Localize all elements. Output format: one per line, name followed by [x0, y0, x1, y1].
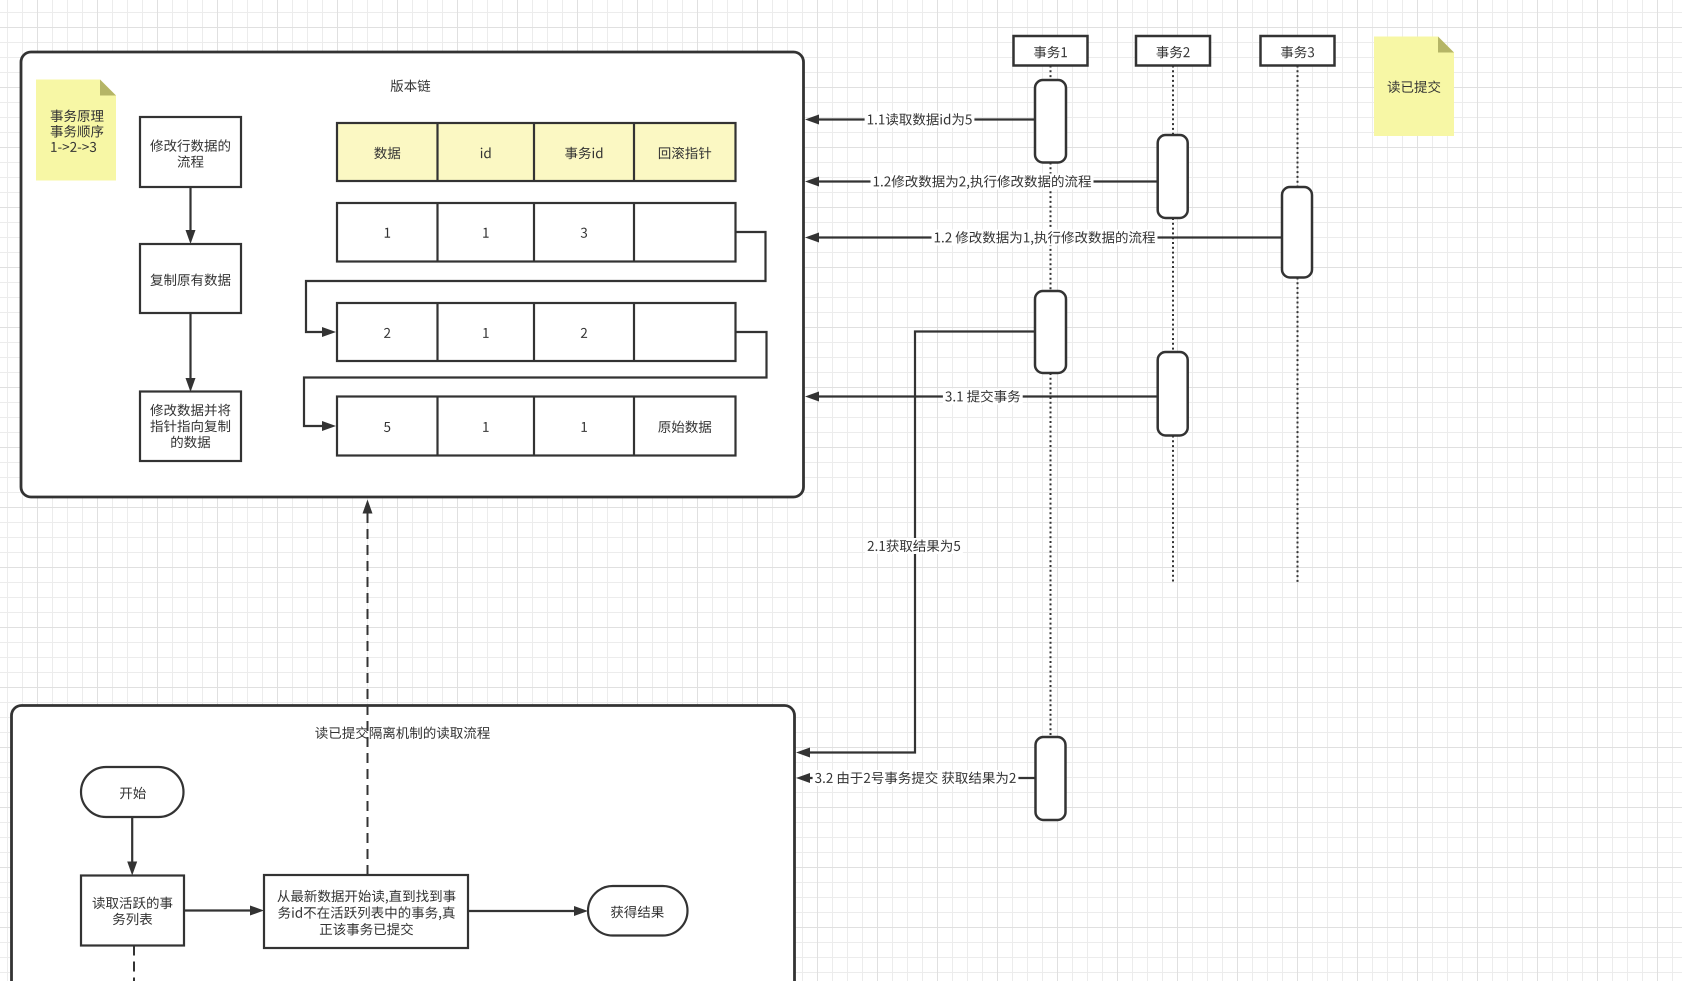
lifeline3 dotted line — [1297, 66, 1299, 188]
container 读取流程 box — [12, 706, 795, 981]
sticky note 事务原理 — [36, 80, 116, 181]
activation bar A5 事务2 — [1158, 352, 1188, 436]
activation bar A6 事务1 — [1036, 737, 1066, 820]
message 3.2获取结果为2 — [808, 777, 1036, 779]
arrow 读取活跃 to 从最新数据 — [184, 909, 252, 911]
activation bar A1 事务1 — [1035, 80, 1066, 163]
dashed connector to 版本链 — [367, 511, 369, 875]
arrow flow2 — [189, 313, 191, 380]
title 读已提交隔离机制的读取流程 — [315, 726, 489, 739]
message 1.2修改数据为2 — [817, 180, 1158, 182]
message 1.1读取数据id为5 — [817, 118, 1035, 120]
process box 修改行数据的流程 — [140, 117, 241, 187]
sticky note 读已提交 — [1374, 37, 1454, 137]
start terminator 开始 — [81, 767, 184, 817]
table header row 数据/id/事务id/回滚指针 — [337, 123, 736, 181]
connector row1 to row2 — [306, 232, 766, 332]
lifeline1 dotted line — [1050, 66, 1052, 81]
process box 修改数据并将指针指向复制的数据 — [140, 392, 241, 462]
title 版本链 — [391, 80, 431, 93]
process box 读取活跃的事务列表 — [81, 876, 184, 946]
process box 从最新数据开始读 — [264, 875, 468, 948]
arrow 从最新数据 to 获得结果 — [469, 910, 576, 912]
arrow 开始 to 读取活跃 — [131, 817, 133, 863]
activation bar A2 事务2 — [1158, 135, 1188, 218]
message 2.1获取结果为5 — [808, 332, 1035, 753]
activation bar A3 事务3 — [1282, 187, 1312, 278]
table row3 5/1/1/原始数据 — [337, 397, 736, 456]
message 1.2修改数据为1 — [817, 236, 1282, 238]
lifeline2 dotted line — [1172, 66, 1174, 136]
lifeline header 事务2 — [1136, 36, 1210, 66]
message 3.1提交事务 — [817, 395, 1158, 397]
lifeline header 事务1 — [1014, 36, 1088, 66]
dashed line below 读取活跃 — [133, 946, 135, 981]
arrow flow1 — [189, 187, 191, 232]
table row1 1/1/3 — [337, 203, 736, 262]
end terminator 获得结果 — [588, 886, 688, 936]
process box 复制原有数据 — [140, 244, 241, 313]
table row2 2/1/2 — [337, 303, 736, 361]
lifeline header 事务3 — [1261, 36, 1335, 66]
activation bar A4 事务1 — [1035, 291, 1066, 373]
connector row2 to row3 — [304, 332, 767, 426]
container 版本链 box — [21, 52, 804, 497]
